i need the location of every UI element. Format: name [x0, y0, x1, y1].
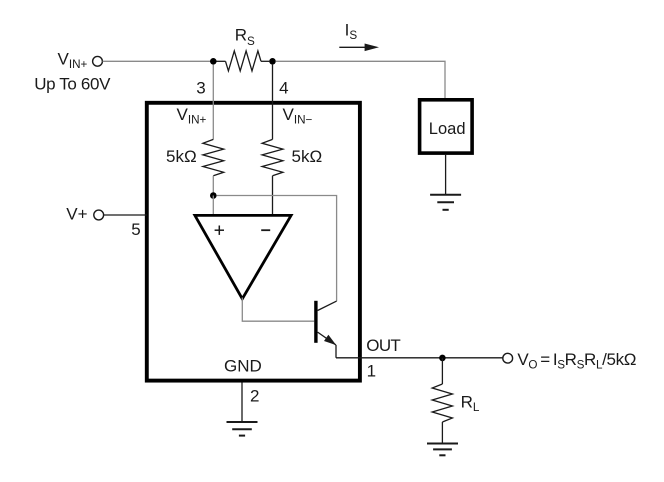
IC box U1: [147, 103, 360, 381]
wire node 4 to Load: [276, 61, 445, 98]
wire left 5k to junction: [212, 176, 214, 196]
svg-text:5kΩ: 5kΩ: [166, 147, 197, 166]
wire feedback junction to transistor collector: [217, 196, 337, 302]
resistor 5k right: [262, 139, 283, 175]
svg-text:V+: V+: [66, 205, 87, 224]
svg-text:3: 3: [196, 79, 205, 98]
svg-text:Up To 60V: Up To 60V: [34, 75, 111, 94]
svg-text:5: 5: [131, 220, 140, 239]
resistor RS: [217, 51, 270, 71]
wire OUT node to RL: [441, 358, 443, 384]
svg-text:2: 2: [250, 386, 259, 405]
resistor 5k left: [203, 139, 224, 175]
wire VIN+ terminal to node 3: [103, 60, 214, 62]
wire pin 2 to ground: [241, 383, 243, 422]
svg-text:GND: GND: [224, 357, 262, 376]
terminal V+: [94, 210, 104, 220]
node junction dot (+ input / feedback): [210, 192, 217, 199]
svg-text:4: 4: [279, 79, 288, 98]
wire op-amp output to transistor base: [242, 298, 314, 322]
wire RL to ground: [441, 422, 443, 443]
arrow IS (current direction): [339, 44, 379, 52]
wire Load to ground: [445, 155, 447, 194]
wire OUT to output terminal: [336, 357, 503, 359]
svg-text:Load: Load: [429, 120, 466, 138]
ground (pin 2): [227, 422, 258, 436]
wire pin 4 (node 4 into IC to right 5k resistor): [272, 65, 274, 140]
node 4 junction dot: [269, 58, 276, 65]
Load box: [420, 100, 473, 153]
wire junction to op-amp + input: [212, 196, 214, 216]
ground (RL): [427, 444, 458, 456]
terminal VO: [503, 353, 513, 363]
resistor RL: [432, 384, 452, 422]
svg-text:OUT: OUT: [366, 336, 400, 355]
terminal VIN+: [93, 56, 103, 66]
wire pin 3 (node 3 into IC to left 5k resistor): [212, 65, 214, 140]
svg-text:1: 1: [367, 361, 376, 380]
node 3 junction dot: [210, 58, 217, 65]
wire emitter to OUT line: [335, 345, 337, 358]
node OUT junction dot: [439, 355, 446, 362]
transistor Q1: [314, 301, 336, 345]
ground (below Load): [430, 195, 461, 210]
wire V+ terminal to pin 5: [104, 214, 147, 216]
wire right 5k to op-amp - input: [272, 176, 274, 216]
svg-text:5kΩ: 5kΩ: [292, 147, 323, 166]
op-amp U1: [195, 215, 291, 298]
